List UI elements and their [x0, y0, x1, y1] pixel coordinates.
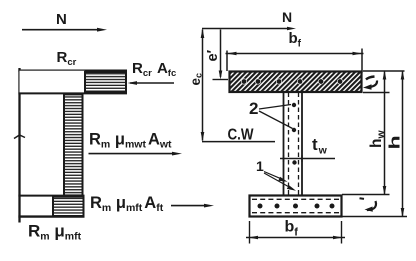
bf top right extension tick [361, 49, 363, 73]
svg-text:N: N [282, 9, 292, 25]
svg-text:bf: bf [285, 219, 299, 239]
bottom flange upper dashed line [252, 198, 339, 200]
leader from 1 to bottom flange with arrowhead [264, 173, 296, 191]
break mark on left outline [14, 135, 25, 139]
N force line over section [202, 27, 296, 31]
extension line at top flange bottom (tf top) [363, 92, 390, 94]
extension line at bottom flange bottom (h bottom) [342, 216, 407, 218]
svg-text:hw: hw [368, 130, 387, 148]
web inner dashed line right [298, 93, 300, 196]
svg-text:Rm μmft: Rm μmft [28, 222, 82, 243]
bottom flange lower dashed line [252, 212, 339, 214]
boundary line above bottom blocks [18, 195, 84, 197]
web inner dashed line left [288, 93, 290, 196]
stress diagram bottom edge [18, 215, 84, 217]
tw tick left [283, 155, 285, 162]
bottom flange rivet dots [258, 204, 335, 209]
bf bottom dimension line [246, 236, 345, 240]
bf bottom right extension tick [341, 221, 343, 244]
svg-text:2: 2 [249, 99, 258, 118]
svg-text:1: 1 [256, 158, 264, 174]
svg-text:Rm μmwtAwt: Rm μmwtAwt [89, 131, 172, 151]
compression flange hatched block Rcr Afc [85, 72, 126, 92]
leader from 2 to upper web dot [259, 105, 291, 110]
Rcr Afc force arrow pointing left into flange block [128, 81, 175, 85]
svg-text:N: N [56, 11, 67, 28]
leader from 1 to web dashed line with arrowhead [264, 172, 288, 182]
svg-text:h: h [386, 135, 403, 149]
stress diagram top edge [18, 70, 127, 72]
bf bottom left extension tick [249, 221, 251, 244]
web right wall [301, 93, 303, 196]
top extension line at flange top (for h, hw) [363, 70, 405, 72]
stress diagram left outline vertical [18, 68, 20, 223]
top flange rivet dots [241, 79, 343, 85]
svg-text:bf: bf [289, 30, 302, 50]
svg-text:Rcr Afc: Rcr Afc [132, 60, 176, 79]
ec dimension line [201, 29, 205, 142]
e' extension tick at flange mid [213, 79, 229, 81]
svg-text:e′: e′ [205, 49, 221, 61]
compression flange white block [20, 71, 85, 94]
svg-text:tw: tw [312, 135, 328, 157]
stress diagram mid edge under top blocks [18, 92, 127, 94]
svg-text:Rm μmftAft: Rm μmftAft [90, 194, 164, 214]
svg-text:Rcr: Rcr [57, 49, 77, 68]
bf top left extension tick [226, 51, 228, 72]
bottom flange outline [250, 196, 342, 217]
N force arrow (left figure) [22, 28, 107, 32]
top flange (hatched, compression) [230, 72, 362, 93]
h dimension line [401, 70, 405, 217]
hw dimension line [383, 70, 387, 195]
bf top dimension line [226, 52, 364, 56]
C.W line [202, 141, 275, 143]
leader from 2 to lower web dot [259, 111, 293, 129]
web left wall [283, 93, 285, 196]
Rm mu_mft Aft arrow pointing right toward section [171, 204, 214, 208]
tf top label (rotated squiggle with arrow) [366, 77, 375, 80]
tf bottom label (rotated squiggle with arrow) [360, 197, 365, 200]
bottom flange hatched block [53, 197, 84, 216]
e' dimension line [219, 30, 223, 80]
tw tick right [301, 155, 303, 162]
tw dimension line across web [280, 158, 335, 160]
Rm mu_mwt Awt arrow pointing right [89, 152, 183, 156]
web tension hatched column [64, 94, 83, 195]
web connector dots [292, 103, 297, 165]
extension line at bottom flange top (hw bottom, tf bottom) [342, 194, 390, 196]
svg-text:ec: ec [188, 73, 204, 86]
